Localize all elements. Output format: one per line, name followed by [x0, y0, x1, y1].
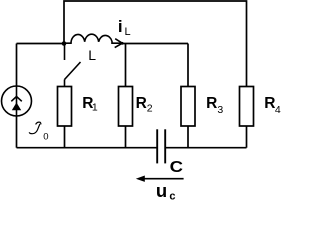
svg-text:C: C: [170, 159, 184, 176]
svg-text:2: 2: [147, 103, 153, 115]
svg-text:i: i: [118, 17, 123, 36]
wire source branch bottom: [16, 116, 18, 148]
wire top rail: [64, 1, 247, 87]
svg-text:L: L: [125, 26, 131, 38]
wire R3 top lead: [187, 44, 189, 87]
resistor R1: [58, 87, 72, 127]
svg-text:1: 1: [92, 101, 98, 113]
svg-text:3: 3: [217, 104, 223, 116]
svg-text:L: L: [88, 47, 96, 63]
wire middle rail right: [122, 43, 188, 45]
svg-text:4: 4: [275, 104, 281, 116]
wire source branch top: [16, 44, 18, 87]
wire bottom rail right of capacitor: [165, 147, 246, 149]
arrow head of iL on inductor wire: [115, 39, 123, 48]
resistor R3: [181, 87, 195, 127]
switch S: [65, 44, 81, 87]
svg-text:u: u: [156, 180, 167, 201]
capacitor C plates: [157, 129, 165, 163]
wire middle rail left: [17, 43, 65, 45]
resistor R4: [240, 87, 254, 127]
current source J0: [2, 86, 32, 116]
svg-text:R: R: [264, 95, 275, 112]
resistor R2: [119, 87, 133, 127]
wire bottom rail left of capacitor: [17, 147, 158, 149]
svg-text:R: R: [206, 95, 217, 112]
svg-text:0: 0: [43, 132, 48, 143]
wire R4 bottom lead: [246, 126, 248, 148]
wire R2 bottom lead: [125, 126, 127, 148]
inductor L: [66, 34, 122, 43]
label J0: [29, 122, 41, 134]
wire R3 bottom lead: [187, 126, 189, 148]
arrow uc voltage reference: [141, 178, 184, 180]
node A junction dot: [62, 41, 67, 46]
svg-text:c: c: [169, 190, 175, 202]
wire R1 bottom lead: [64, 126, 66, 148]
wire R2 top lead: [125, 44, 127, 87]
svg-text:R: R: [136, 95, 147, 112]
